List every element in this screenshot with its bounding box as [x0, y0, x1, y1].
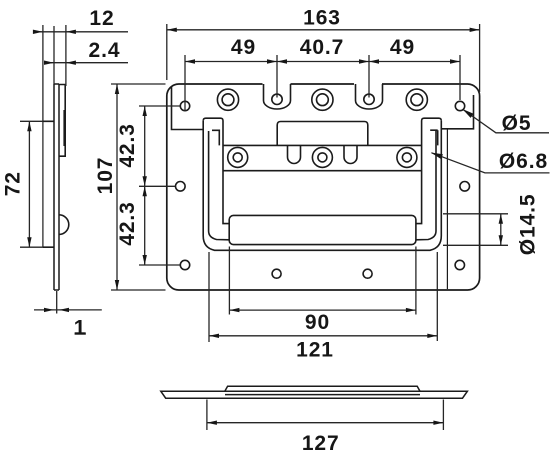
arrows dim 12 — [33, 30, 43, 34]
svg-text:42.3: 42.3 — [116, 201, 139, 245]
notch hole left — [272, 94, 282, 104]
bottom corner hole right — [455, 260, 464, 269]
svg-text:2.4: 2.4 — [89, 39, 121, 62]
svg-text:Ø14.5: Ø14.5 — [517, 194, 540, 256]
arrows dim 42.3 chain — [143, 106, 147, 116]
arrowheads — [27, 28, 503, 425]
housing outline right — [441, 95, 473, 129]
dim 72 lines — [20, 121, 43, 247]
svg-text:40.7: 40.7 — [300, 36, 344, 59]
dim 107 lines — [111, 84, 166, 290]
housing outline left — [172, 87, 204, 130]
ringed hole C (top row) — [406, 89, 427, 110]
dim 163 lines — [167, 24, 480, 92]
arrows dim 127 — [207, 421, 217, 425]
notch (top edge slot) right — [354, 82, 383, 109]
dim 12 lines — [33, 25, 128, 121]
side view grip bump — [59, 215, 69, 235]
spring cover — [277, 122, 368, 146]
pivot slot right — [344, 145, 357, 163]
plate outline (front view 163x107) — [167, 84, 480, 290]
leader Ø5 — [464, 110, 550, 133]
svg-text:12: 12 — [89, 7, 114, 30]
corner hole top-left (Ø5) — [180, 101, 189, 110]
arrows dim 107 — [115, 84, 119, 94]
side view dish profile — [43, 121, 54, 247]
svg-text:163: 163 — [303, 7, 341, 30]
arrows dim 2.4 — [44, 61, 54, 65]
svg-text:1: 1 — [74, 317, 87, 340]
spring cartridge step right — [430, 130, 438, 145]
pivot slot left — [288, 145, 301, 163]
bottom corner hole left — [180, 260, 189, 269]
bottom view main strip — [161, 391, 468, 398]
recess pan outline — [203, 121, 441, 251]
svg-text:90: 90 — [305, 311, 330, 334]
leader Ø6.8 — [432, 153, 550, 173]
arrows dim Ø14.5 — [499, 214, 503, 224]
arrows dim 90 — [229, 308, 239, 312]
arrows dim 49/40.7/49 — [185, 59, 195, 63]
ringed hole B (top row) — [312, 89, 333, 110]
arrows dim 163 — [167, 28, 177, 32]
pivot plate bottom edge — [223, 170, 422, 172]
svg-text:127: 127 — [302, 432, 340, 455]
arrow leader Ø5 — [462, 109, 473, 118]
svg-text:49: 49 — [390, 36, 415, 59]
dim 42.3 chain lines — [139, 106, 180, 265]
svg-text:Ø6.8: Ø6.8 — [499, 150, 548, 173]
handle left arm bend line — [209, 131, 229, 240]
svg-text:49: 49 — [231, 36, 256, 59]
bottom inner hole right — [363, 269, 372, 278]
dim 90 lines — [229, 247, 416, 315]
handle right arm — [416, 118, 441, 223]
dim 127 lines — [207, 400, 444, 431]
svg-text:42.3: 42.3 — [116, 123, 139, 167]
handle right arm bend line — [416, 131, 436, 240]
svg-text:121: 121 — [296, 339, 334, 362]
arrow leader Ø6.8 — [431, 153, 443, 160]
pivot rivet left — [228, 147, 248, 167]
ringed hole A (top row) — [217, 89, 238, 110]
bottom view upper strip — [225, 386, 420, 391]
dim Ø14.5 lines — [443, 214, 508, 246]
grip bar — [229, 215, 416, 244]
side view lip dark segment — [63, 110, 65, 146]
notch hole right — [364, 94, 374, 104]
arrows dim 72 — [27, 121, 31, 131]
pivot rivet right — [397, 147, 417, 167]
dim chain 49/40.7/49 lines — [185, 55, 460, 111]
spring cartridge step left — [212, 130, 219, 145]
side view plate — [54, 84, 59, 290]
housing edge right vertical — [446, 129, 448, 289]
corner hole top-right (Ø5) — [455, 101, 464, 110]
svg-text:72: 72 — [2, 171, 25, 196]
side view dish front face — [42, 121, 44, 247]
arrows dim 121 — [209, 334, 219, 338]
svg-text:107: 107 — [94, 157, 117, 195]
pivot plate top edge — [223, 144, 422, 146]
svg-text:Ø5: Ø5 — [502, 112, 532, 135]
notch (top edge slot) left — [263, 82, 291, 109]
middle hole right — [460, 182, 470, 192]
dim 1 lines — [34, 291, 102, 314]
middle hole left — [176, 182, 186, 192]
handle left arm — [203, 118, 229, 223]
dim 121 lines — [209, 252, 437, 342]
dim 2.4 lines — [44, 26, 128, 84]
bottom inner hole left — [272, 269, 281, 278]
arrows dim 1 — [44, 308, 54, 312]
side view lip — [59, 85, 65, 157]
pivot rivet center — [312, 147, 332, 167]
bottom view inner edge — [225, 394, 420, 396]
